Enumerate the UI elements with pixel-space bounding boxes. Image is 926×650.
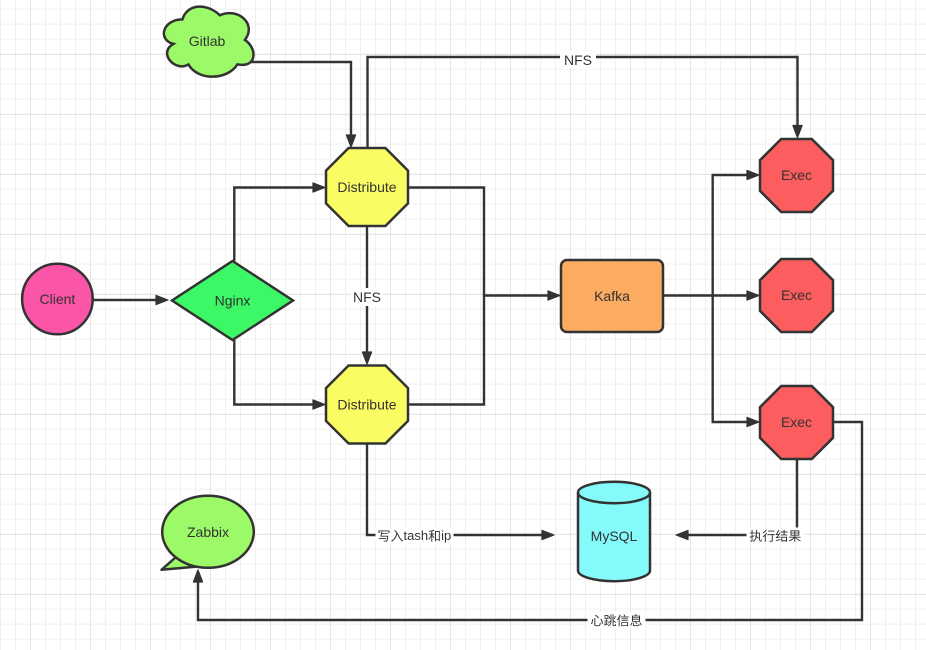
svg-text:Kafka: Kafka [594, 288, 630, 304]
wire Exec3 to MySQL (result) [687, 459, 797, 536]
wire NFS mid: Distribute1 to Distribute2 [366, 226, 368, 353]
arrowhead into Distribute2 top [362, 352, 371, 364]
svg-text:Nginx: Nginx [215, 293, 251, 309]
svg-text:Exec: Exec [781, 167, 812, 183]
wire branch to Exec3 [713, 296, 748, 423]
arrowhead into Exec1 top [793, 126, 802, 138]
svg-text:NFS: NFS [564, 52, 592, 68]
wire Gitlab to Distribute1 [250, 62, 351, 136]
wire Distribute2 to MySQL (write task) [367, 444, 543, 536]
circle Client [22, 264, 93, 335]
arrowhead into Exec1 left [747, 170, 759, 179]
octagon Distribute1 [326, 148, 408, 226]
arrowhead into Kafka left [548, 291, 560, 300]
wire Kafka to Exec2 [663, 294, 748, 296]
wire Client to Nginx [93, 299, 156, 301]
cloud Gitlab [164, 7, 254, 77]
wire Exec3 to Zabbix (heartbeat) [198, 422, 862, 620]
label exec-result [747, 528, 805, 544]
wire NFS top: Distribute1 to Exec1 [368, 57, 798, 148]
svg-text:Distribute: Distribute [337, 397, 396, 413]
bubble Zabbix tail [162, 557, 199, 570]
wire Nginx to Distribute2 [234, 340, 314, 405]
svg-text:Exec: Exec [781, 414, 812, 430]
bubble Zabbix [162, 496, 254, 568]
arrowhead into Exec3 left [747, 417, 759, 426]
svg-text:tash: tash [404, 528, 429, 543]
diamond Nginx [172, 261, 293, 340]
svg-text:Distribute: Distribute [337, 179, 396, 195]
arrowhead toward MySQL left [542, 530, 554, 539]
svg-text:MySQL: MySQL [591, 528, 638, 544]
wire Nginx to Distribute1 [234, 188, 314, 262]
label NFS top [560, 51, 596, 69]
arrowhead into Distribute1 top [346, 135, 355, 147]
wire Distribute1/2 join [408, 188, 484, 405]
label heartbeat [588, 612, 646, 629]
octagon Exec3 [760, 386, 833, 459]
arrowhead toward MySQL right [676, 530, 688, 539]
octagon Distribute2 [326, 366, 408, 444]
wire join to Kafka [484, 294, 549, 296]
svg-text:Exec: Exec [781, 287, 812, 303]
arrowhead into Nginx left [156, 295, 168, 304]
svg-text:Zabbix: Zabbix [187, 524, 229, 540]
svg-text:Gitlab: Gitlab [189, 33, 226, 49]
arrowhead into Exec2 left [747, 291, 759, 300]
svg-text:NFS: NFS [353, 289, 381, 305]
arrowhead into Zabbix bottom [193, 570, 202, 582]
octagon Exec1 [760, 139, 833, 212]
svg-text:Client: Client [40, 291, 76, 307]
rect Kafka [561, 260, 663, 332]
label write-task [376, 528, 454, 544]
label NFS mid [351, 288, 383, 306]
octagon Exec2 [760, 259, 833, 332]
cylinder MySQL [578, 493, 650, 582]
arrowhead into Distribute1 left [313, 183, 325, 192]
wire branch to Exec1 [713, 175, 748, 296]
arrowhead into Distribute2 left [313, 400, 325, 409]
svg-text:ip: ip [441, 528, 451, 543]
